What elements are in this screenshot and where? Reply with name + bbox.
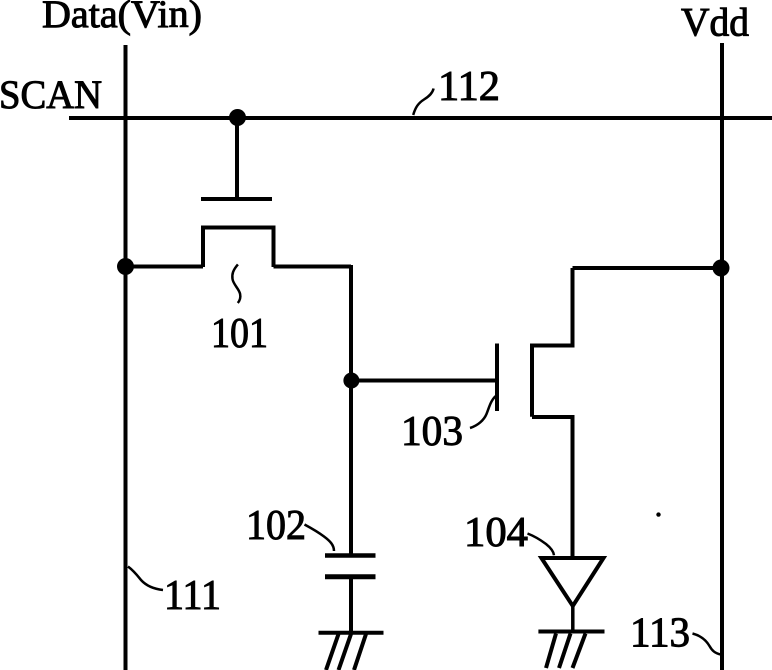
ground under capacitor	[319, 633, 384, 670]
diode D104 (OLED)	[541, 558, 603, 606]
capacitor C102 top plate	[325, 553, 376, 558]
wire drain of 103 up to Vdd branch	[532, 268, 573, 346]
label 113 leader	[693, 634, 722, 655]
junction on Vdd line	[713, 260, 730, 277]
svg-text:111: 111	[164, 573, 221, 619]
transistor Q101 channel	[203, 228, 274, 268]
wire gate lead of transistor 103	[351, 379, 497, 383]
transistor Q103 gate bar	[495, 344, 499, 412]
svg-text:102: 102	[246, 503, 306, 549]
svg-text:113: 113	[630, 611, 690, 657]
stray speck	[656, 512, 660, 516]
svg-text:112: 112	[438, 64, 500, 110]
svg-text:Vdd: Vdd	[681, 0, 749, 45]
label 112 leader	[413, 89, 433, 116]
wire gate lead of transistor 101	[235, 118, 239, 199]
wire scan line 112	[69, 116, 772, 120]
wire capacitor to ground	[349, 578, 353, 631]
svg-text:103: 103	[401, 409, 463, 455]
wire drain of 101	[274, 265, 352, 269]
wire Vdd branch	[573, 266, 723, 270]
wire data line 111	[124, 45, 128, 670]
svg-text:104: 104	[464, 510, 528, 556]
wire source of 101 to data line	[126, 265, 204, 269]
label 103 leader	[470, 396, 496, 428]
wire diode to ground	[571, 606, 575, 631]
wire source of 103 down to diode 104	[532, 417, 573, 558]
label 101 leader	[232, 264, 240, 303]
junction on data line	[117, 258, 134, 275]
wire Vdd line 113	[720, 43, 724, 670]
node junction A	[343, 373, 359, 389]
transistor Q103 channel	[530, 344, 534, 417]
ground under diode	[538, 632, 604, 669]
wire node branch down to capacitor	[349, 265, 353, 554]
label 104 leader	[528, 534, 555, 556]
transistor Q101 gate bar	[201, 197, 272, 201]
svg-text:SCAN: SCAN	[0, 72, 102, 117]
label 102 leader	[305, 525, 335, 552]
capacitor C102 bottom plate	[325, 574, 376, 579]
svg-text:Data(Vin): Data(Vin)	[42, 0, 202, 36]
junction on scan line	[229, 109, 246, 126]
svg-text:101: 101	[211, 311, 268, 357]
label 111 leader	[128, 567, 163, 591]
